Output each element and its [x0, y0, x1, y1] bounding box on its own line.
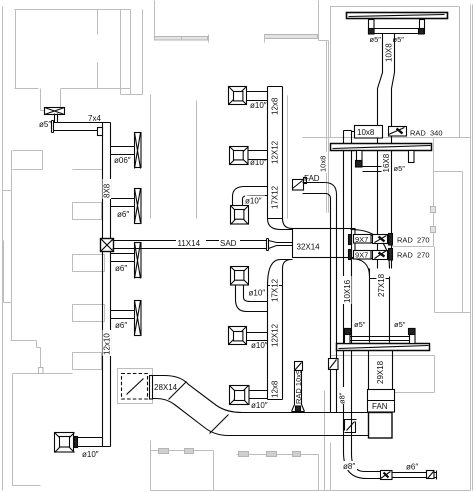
- riser B bottom elbow: [344, 453, 367, 479]
- diffuser D1: [229, 87, 268, 105]
- svg-text:ø5″: ø5″: [393, 35, 405, 44]
- fire damper at SAD junction: [101, 239, 114, 252]
- junction plenum 32X14: [293, 229, 356, 258]
- svg-text:8X8: 8X8: [103, 183, 112, 198]
- svg-text:12x8: 12x8: [271, 380, 280, 398]
- top-left room walls: [15, 10, 143, 95]
- tap damper inside 28X14: [345, 420, 357, 433]
- sidewall register top-left: [45, 108, 65, 123]
- svg-text:ø8″: ø8″: [338, 392, 347, 404]
- bottom walls with columns: [151, 451, 214, 491]
- right corridor walls: [393, 138, 471, 313]
- svg-text:12X12: 12X12: [271, 323, 280, 347]
- svg-text:ø10″: ø10″: [82, 450, 99, 459]
- bottom boundary wall: [151, 490, 471, 492]
- svg-text:ø6″: ø6″: [117, 210, 129, 219]
- middle column duct lower 17X12/12X12/12x8: [268, 286, 283, 400]
- label 12x10 rotated: [103, 330, 112, 356]
- right column duct 10X8 upper with jog: [378, 34, 395, 269]
- register R1: [111, 133, 142, 169]
- FAD damper: [293, 178, 307, 191]
- top middle wall with window band: [154, 1, 156, 37]
- svg-text:11X14: 11X14: [178, 239, 201, 248]
- diffuser D2: [230, 147, 268, 165]
- svg-text:RAD 10x9: RAD 10x9: [294, 370, 303, 404]
- svg-text:ø10″: ø10″: [251, 401, 268, 410]
- svg-text:16X8: 16X8: [382, 153, 391, 172]
- middle column duct 12x8/12X12/17X12 upper: [268, 87, 283, 219]
- 9X7 branch lower: [349, 249, 393, 261]
- linear diffuser bar 1 top: [347, 13, 448, 19]
- corridor double wall below band: [319, 41, 329, 213]
- label 10X8 top rotated: [384, 43, 394, 63]
- svg-text:ø5″: ø5″: [394, 164, 406, 173]
- label 12X12 lower rotated: [270, 322, 280, 348]
- svg-text:9X7: 9X7: [355, 251, 368, 260]
- 29X18 duct to fan: [369, 351, 393, 390]
- 10x8 label box with leader: [352, 126, 383, 139]
- flex connection unit box: [122, 374, 153, 400]
- label 16X8 rotated: [382, 152, 392, 173]
- register R3: [111, 243, 142, 279]
- svg-text:ø6″: ø6″: [115, 321, 127, 330]
- bar3 brackets and duct: [345, 329, 416, 344]
- diffuser D3 with riser elbow up: [231, 187, 268, 225]
- label phi8 bottom: [342, 461, 357, 471]
- svg-text:32X14: 32X14: [297, 243, 321, 252]
- outer right boundary wall: [471, 5, 473, 491]
- label 8X8 rotated: [103, 179, 112, 199]
- svg-text:12x10: 12x10: [103, 333, 112, 355]
- svg-text:10x8: 10x8: [319, 156, 328, 172]
- bar1 hanger brackets and plenum duct: [369, 20, 425, 35]
- svg-text:9X7: 9X7: [355, 235, 368, 244]
- 27X18 elbow from junction: [351, 230, 390, 277]
- svg-text:SAD: SAD: [220, 239, 237, 248]
- duct 28X14 S-offset: [153, 376, 369, 413]
- inline damper 2: [427, 471, 435, 479]
- svg-text:ø5″: ø5″: [354, 320, 366, 329]
- inline damper 1: [381, 471, 393, 480]
- svg-text:10x8: 10x8: [357, 128, 375, 137]
- svg-text:ø6″: ø6″: [406, 463, 418, 472]
- label 12x8 upper rotated: [270, 94, 280, 116]
- label 17X12 lower rotated: [270, 278, 280, 303]
- label 27X18 rotated: [377, 272, 387, 298]
- svg-text:10X8: 10X8: [385, 43, 394, 62]
- label 10X16 rotated: [343, 276, 353, 304]
- damper on riser A: [329, 359, 339, 370]
- linear diffuser bar 2 (RAD 340): [331, 144, 432, 151]
- diffuser D5: [229, 327, 268, 345]
- label 11X14: [176, 237, 206, 248]
- outer left boundary wall: [2, 7, 4, 491]
- left inner wall column: [4, 151, 73, 486]
- svg-text:12X12: 12X12: [271, 140, 280, 164]
- svg-text:27X18: 27X18: [377, 273, 386, 297]
- svg-text:29X18: 29X18: [376, 360, 385, 384]
- duct 11X14 SAD: [113, 239, 269, 251]
- svg-text:ø10″: ø10″: [250, 158, 267, 167]
- damper at RAD 340: [389, 127, 407, 137]
- big top-right room: [303, 7, 471, 138]
- svg-text:RAD 270: RAD 270: [397, 236, 430, 245]
- RAD 10x9 return duct: [292, 362, 305, 412]
- register R4: [111, 301, 142, 336]
- svg-text:ø8″: ø8″: [343, 462, 355, 471]
- lower elbow from junction: [268, 260, 293, 286]
- label 29X18 rotated: [376, 357, 386, 385]
- svg-text:ø10″: ø10″: [249, 289, 266, 298]
- bar2 brackets and duct: [356, 151, 415, 172]
- svg-text:ø10″: ø10″: [250, 101, 267, 110]
- 27X18 duct down: [370, 269, 390, 343]
- main vertical duct 8X8/12x10: [103, 123, 111, 447]
- duct phi8 run bottom: [365, 471, 437, 480]
- label phi8 riser rotated: [338, 387, 347, 404]
- svg-text:ø10″: ø10″: [251, 341, 268, 350]
- svg-text:10X16: 10X16: [343, 279, 352, 303]
- svg-text:FAN: FAN: [372, 402, 388, 411]
- small room under top-left room: [41, 89, 61, 111]
- svg-text:12x8: 12x8: [271, 97, 280, 115]
- top center window band: [265, 35, 318, 39]
- svg-text:28X14: 28X14: [154, 383, 178, 392]
- svg-text:RAD 340: RAD 340: [410, 129, 443, 138]
- riser B 10x8 from ceiling diffuser: [344, 131, 352, 455]
- label SAD: [219, 237, 240, 248]
- label phi10 D3: [245, 196, 265, 206]
- label RAD 10x9 rotated: [294, 370, 303, 404]
- linear diffuser bar 3: [337, 344, 430, 351]
- mechanical room walls: [325, 356, 435, 491]
- gray unit outline around flex box: [118, 369, 153, 404]
- label 10x8 gray duct rotated: [319, 152, 328, 173]
- diffuser D4 with riser elbow down: [231, 267, 268, 312]
- svg-text:17X12: 17X12: [271, 185, 280, 209]
- small rooms mid-left: [13, 151, 103, 170]
- center corridor walls: [3, 95, 288, 219]
- FAD duct elbow down (10X16 riser A): [303, 183, 337, 413]
- 9X7 branch upper: [349, 234, 393, 246]
- duct 7x4 horizontal: [52, 121, 103, 133]
- upper elbow into junction: [268, 219, 293, 230]
- FAN box: [368, 390, 395, 439]
- label 12x8 lower rotated: [270, 376, 280, 398]
- label 17X12 upper rotated: [270, 185, 280, 210]
- svg-text:ø6″: ø6″: [115, 264, 127, 273]
- svg-text:ø5″: ø5″: [39, 120, 51, 129]
- svg-text:RAD 270: RAD 270: [397, 251, 430, 260]
- register R2: [111, 189, 142, 224]
- svg-text:7x4: 7x4: [88, 114, 101, 123]
- diffuser D6: [230, 386, 268, 405]
- svg-text:ø5″: ø5″: [370, 35, 382, 44]
- label 12X12 upper rotated: [270, 139, 280, 165]
- svg-text:ø06″: ø06″: [114, 156, 131, 165]
- svg-text:ø10″: ø10″: [245, 197, 262, 206]
- svg-text:FAD: FAD: [304, 174, 320, 183]
- svg-text:ø5″: ø5″: [394, 320, 406, 329]
- taper 11X14 to neck: [269, 241, 293, 249]
- svg-text:17X12: 17X12: [271, 278, 280, 302]
- diffuser phi10 bottom-left: [55, 433, 103, 453]
